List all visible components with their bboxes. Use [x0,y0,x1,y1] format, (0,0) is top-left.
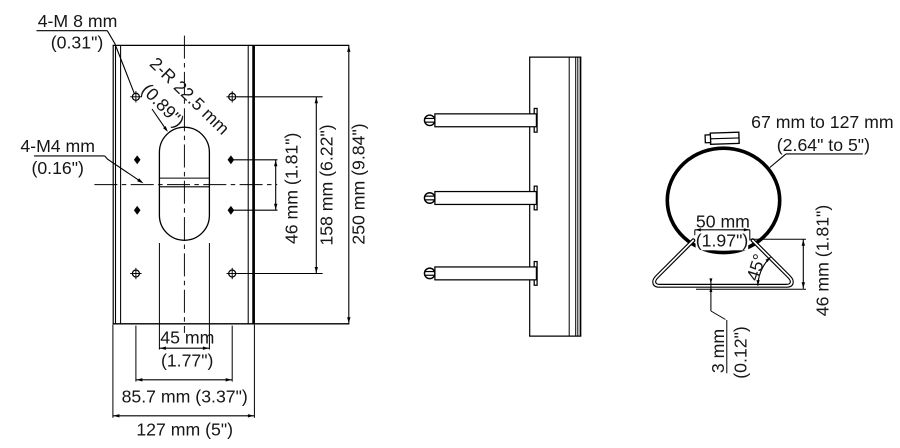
svg-text:(2.64" to 5"): (2.64" to 5") [777,135,870,155]
svg-text:3 mm: 3 mm [708,329,728,373]
svg-text:(0.16"): (0.16") [31,158,83,178]
svg-text:(1.77"): (1.77") [161,350,213,370]
svg-text:(0.12"): (0.12") [731,326,751,378]
svg-text:45 mm: 45 mm [160,328,214,348]
svg-text:(1.97"): (1.97") [696,231,748,251]
svg-text:85.7 mm (3.37"): 85.7 mm (3.37") [122,387,248,407]
svg-text:127 mm (5"): 127 mm (5") [136,419,233,439]
svg-text:4-M4 mm: 4-M4 mm [20,136,95,156]
svg-text:(0.31"): (0.31") [51,33,103,53]
svg-text:4-M 8 mm: 4-M 8 mm [38,11,118,31]
svg-text:50 mm: 50 mm [696,212,750,232]
svg-text:46 mm (1.81"): 46 mm (1.81") [812,205,832,316]
svg-text:250 mm (9.84"): 250 mm (9.84") [349,123,369,244]
svg-text:45°: 45° [742,251,769,283]
svg-text:158 mm (6.22"): 158 mm (6.22") [316,124,336,245]
svg-text:46 mm (1.81"): 46 mm (1.81") [281,133,301,244]
svg-text:67 mm to 127 mm: 67 mm to 127 mm [751,112,894,132]
